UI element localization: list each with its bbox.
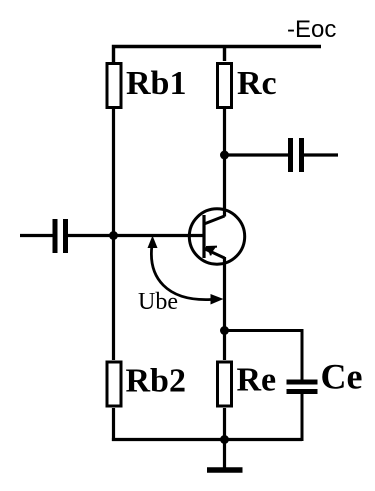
wire Ce bottom to ground rail [301, 393, 304, 441]
arrow Ube right arrowhead [211, 294, 224, 305]
node ground junction [220, 435, 229, 444]
node emitter/Re/Ce junction [220, 326, 229, 335]
arrow Ube up arrowhead [148, 236, 158, 249]
transistor base bar [202, 215, 205, 258]
ground [207, 467, 243, 473]
wire Re bottom lead [223, 408, 226, 441]
wire output right lead [304, 153, 338, 156]
wire emitter down to junction [223, 257, 226, 332]
transistor Q1 (PNP) circle [189, 209, 244, 264]
transistor emitter lead [204, 249, 225, 259]
power rail -Eoc [114, 47, 322, 63]
svg-text:Rb2: Rb2 [126, 363, 186, 400]
wire Re top lead [223, 331, 226, 361]
capacitor input coupling [55, 219, 66, 253]
wire ground stub [223, 440, 226, 469]
wire rail to Rc [223, 47, 226, 62]
wire output lead [225, 153, 289, 156]
transistor collector lead [204, 216, 225, 224]
wire bottom rail [112, 438, 302, 441]
wire junction to Ce top [225, 331, 303, 382]
svg-text:Ce: Ce [321, 357, 363, 397]
svg-text:Rb1: Rb1 [126, 65, 186, 102]
transistor emitter arrowhead (PNP) [205, 246, 216, 255]
wire input lead [20, 234, 53, 237]
wire Rc bottom to collector [223, 109, 226, 217]
node collector/output junction [220, 151, 229, 160]
resistor Rb1 [107, 64, 121, 108]
svg-text:Ube: Ube [138, 289, 178, 315]
capacitor Ce plates [287, 382, 318, 392]
wire input to base [68, 234, 204, 237]
resistor Re [218, 362, 232, 406]
wire left branch (Rb1 bottom to Rb2 top) [112, 109, 115, 360]
node base/divider junction [109, 231, 118, 240]
svg-text:-Eoc: -Eoc [287, 16, 336, 43]
resistor Rb2 [107, 362, 121, 406]
svg-text:Re: Re [237, 362, 277, 399]
capacitor output coupling [291, 138, 302, 172]
wire Rb2 bottom to ground rail [112, 408, 115, 441]
svg-text:Rc: Rc [237, 65, 277, 102]
arrow Ube curve [151, 247, 211, 300]
resistor Rc [218, 64, 232, 108]
